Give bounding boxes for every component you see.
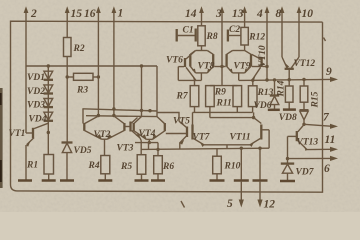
svg-text:VD4: VD4 xyxy=(29,115,47,125)
transistor pair VT9 xyxy=(222,51,261,81)
svg-text:8: 8 xyxy=(276,8,282,20)
resistor R15 xyxy=(300,80,320,111)
pin 15 xyxy=(65,6,82,38)
svg-text:11: 11 xyxy=(325,134,336,146)
node: VD4 / VT1 collector / R1 xyxy=(47,131,50,134)
resistor R3 xyxy=(67,73,98,95)
resistor R6 xyxy=(154,143,175,181)
svg-text:R8: R8 xyxy=(206,32,218,42)
transistor VT7 xyxy=(193,125,211,148)
resistor R10 xyxy=(213,148,241,180)
wire: right emitter bus xyxy=(239,79,267,81)
transistor pair VT2 xyxy=(84,116,124,140)
wire: rail2 y117.6 xyxy=(210,112,261,123)
wire: x157 corner vertical + jog xyxy=(156,66,158,117)
svg-text:VT3: VT3 xyxy=(117,144,134,154)
pin 2 xyxy=(24,6,37,66)
wire: left emitter bus + R7 stub xyxy=(178,79,201,81)
resistor R14 xyxy=(277,80,294,109)
svg-text:1: 1 xyxy=(118,8,124,20)
svg-text:VT2: VT2 xyxy=(94,130,111,140)
diode VD5 xyxy=(62,143,92,181)
transistor VT6 xyxy=(166,51,196,81)
resistor R11 xyxy=(216,86,242,109)
svg-text:R5: R5 xyxy=(120,162,132,172)
svg-text:R3: R3 xyxy=(76,86,88,96)
svg-text:6: 6 xyxy=(324,163,330,175)
svg-text:9: 9 xyxy=(326,66,332,78)
svg-text:R2: R2 xyxy=(73,44,85,54)
diode VD1 xyxy=(27,71,53,83)
node: R3 left xyxy=(66,75,69,78)
transistor pair VT4 xyxy=(134,117,186,150)
pin 11 xyxy=(307,134,338,152)
svg-text:5: 5 xyxy=(227,198,233,210)
ground (VD6) xyxy=(268,109,280,112)
transistor VT11 xyxy=(230,125,270,149)
node: R3 right xyxy=(97,75,100,78)
node: pin4 / VT10 base xyxy=(265,65,268,68)
svg-text:VT5: VT5 xyxy=(173,117,190,127)
diode VD3 xyxy=(27,99,53,111)
wire: VT1 emitter tail to ground xyxy=(25,145,27,181)
svg-text:VT1: VT1 xyxy=(9,129,26,139)
transistor VT10 xyxy=(252,45,269,81)
svg-text:R11: R11 xyxy=(216,99,232,109)
wire: rail1 y112.4 collecting R7 R9 R11 R13 xyxy=(193,107,253,125)
svg-text:VD2: VD2 xyxy=(27,87,45,97)
capacitor C2 xyxy=(228,25,241,42)
resistor R9 xyxy=(206,86,227,107)
svg-text:13: 13 xyxy=(232,8,244,20)
pin 1 xyxy=(112,6,124,115)
transistor pair VT8 xyxy=(190,51,222,81)
ground (R1) xyxy=(42,179,56,182)
capacitor C1 xyxy=(177,26,196,42)
pin 5 xyxy=(227,148,249,210)
svg-text:12: 12 xyxy=(264,199,276,211)
svg-text:R14: R14 xyxy=(277,80,287,97)
wire: supply bus y66 from pin2 corner xyxy=(26,65,157,67)
pin 3 xyxy=(215,6,224,66)
svg-text:10: 10 xyxy=(302,8,314,20)
svg-text:R1: R1 xyxy=(26,161,38,171)
resistor R5 xyxy=(120,141,146,181)
resistor R2 xyxy=(64,38,85,57)
svg-text:VT7: VT7 xyxy=(193,132,211,142)
ground (VD7) xyxy=(280,180,295,183)
wire: VT2 left bar feed from rail A corner xyxy=(82,109,84,124)
diode VD2 xyxy=(27,85,53,97)
svg-text:R6: R6 xyxy=(162,162,174,172)
ground (VD5) xyxy=(60,179,74,182)
transistor VT5 xyxy=(173,117,190,150)
wire: emitter bar + stub to bus xyxy=(204,145,250,148)
svg-text:VT4: VT4 xyxy=(139,129,156,139)
resistor R13 xyxy=(248,86,273,107)
scan artifact: stray mark bottom xyxy=(181,201,185,208)
svg-text:R9: R9 xyxy=(214,88,226,98)
node: pin3 / VT8-VT9 bases xyxy=(220,65,223,68)
svg-text:VD1: VD1 xyxy=(27,73,45,83)
svg-text:4: 4 xyxy=(256,8,263,20)
wire: x141.5 vertical xyxy=(141,66,143,117)
pin 12 xyxy=(253,148,276,210)
pin 14 xyxy=(185,6,204,26)
svg-text:VT9: VT9 xyxy=(234,61,251,71)
svg-text:VT13: VT13 xyxy=(297,137,319,147)
svg-text:VD8: VD8 xyxy=(279,113,297,123)
ground (VT1 emitter) xyxy=(18,179,32,182)
ground (R4) xyxy=(98,179,112,182)
svg-text:R12: R12 xyxy=(248,33,265,43)
wire: rail B y115.5 xyxy=(86,115,157,118)
node: bus / x141.5 xyxy=(140,64,143,67)
ground (R5) xyxy=(135,179,149,182)
pin 8 xyxy=(276,6,285,57)
transistor VT3 xyxy=(117,118,142,154)
wire: pin 9 bus xyxy=(265,78,330,82)
wire: diode chain vertical xyxy=(47,66,49,155)
node: pin7 / VD8 / VT13 collector xyxy=(302,123,305,126)
svg-text:VT8: VT8 xyxy=(198,61,215,71)
wire: pin15 line down through R3 to VD5 xyxy=(66,57,68,143)
svg-text:14: 14 xyxy=(185,8,197,20)
pin 6 xyxy=(286,156,338,175)
resistor R1 xyxy=(26,155,54,181)
svg-text:2: 2 xyxy=(30,8,37,20)
svg-text:R4: R4 xyxy=(88,161,100,171)
svg-text:16: 16 xyxy=(84,8,96,20)
svg-text:C1: C1 xyxy=(183,26,194,36)
pin 7 xyxy=(304,112,338,129)
node: bus / diode chain junction xyxy=(47,64,50,67)
transistor VT1 xyxy=(9,123,49,147)
pin 16 xyxy=(84,6,101,115)
diode VD6 xyxy=(254,80,280,111)
wire: pin3 down to R9/R11 tops xyxy=(221,67,223,86)
transistor VT12 xyxy=(282,57,315,80)
svg-text:VT11: VT11 xyxy=(230,132,251,142)
svg-text:VT10: VT10 xyxy=(258,45,268,67)
diode VD7 xyxy=(281,159,315,181)
resistor R4 xyxy=(88,139,110,180)
ground (R14) xyxy=(283,108,296,111)
svg-text:VT6: VT6 xyxy=(166,55,183,65)
scan artifact: speck top right xyxy=(324,38,326,42)
wire: VT1 base vertical xyxy=(25,66,27,133)
svg-text:15: 15 xyxy=(71,8,83,20)
svg-text:3: 3 xyxy=(215,8,222,20)
pin 4 xyxy=(256,6,269,80)
svg-text:VT12: VT12 xyxy=(294,59,316,69)
svg-text:R7: R7 xyxy=(176,92,189,102)
diode VD8 xyxy=(279,110,309,124)
resistor R7 xyxy=(176,86,199,107)
svg-text:C2: C2 xyxy=(229,25,240,35)
wire: rail A y109 xyxy=(82,109,157,111)
ground (R10) xyxy=(210,179,225,182)
pin 9 xyxy=(326,66,338,82)
scan artifact: dark left edge xyxy=(0,88,3,188)
svg-text:R15: R15 xyxy=(311,91,321,108)
resistor R8 xyxy=(198,26,218,51)
svg-text:VD7: VD7 xyxy=(296,168,315,178)
svg-text:VD3: VD3 xyxy=(27,101,45,111)
node: R13 tap xyxy=(251,79,254,82)
svg-text:R10: R10 xyxy=(224,162,241,172)
wire: bottom bus y148.2 xyxy=(141,148,269,149)
pin 10 xyxy=(297,6,314,57)
ground (R6) xyxy=(151,179,165,182)
diode VD4 xyxy=(29,112,54,124)
pin 13 xyxy=(232,6,247,27)
svg-text:VD5: VD5 xyxy=(74,146,92,156)
transistor VT13 xyxy=(288,125,319,159)
node dots on rails xyxy=(112,107,115,110)
IC boundary frame xyxy=(11,21,323,192)
resistor R12 xyxy=(241,27,265,50)
